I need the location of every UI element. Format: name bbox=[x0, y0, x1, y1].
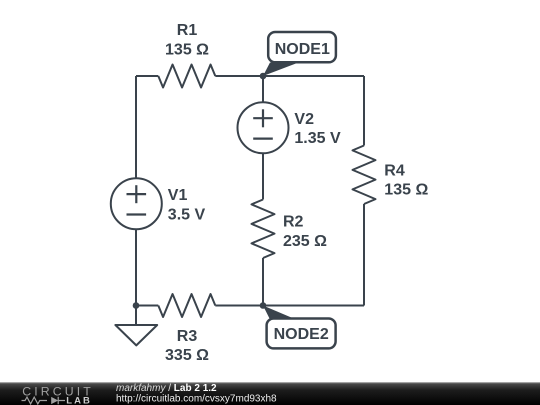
footer logo diode triangle bbox=[51, 397, 58, 404]
node NODE1 label pointer bbox=[263, 63, 299, 77]
svg-text:R2: R2 bbox=[283, 214, 304, 231]
wire top right segment bbox=[263, 75, 364, 77]
wire bottom middle segment bbox=[215, 305, 263, 307]
footer CircuitLab logo wordmark bbox=[22, 385, 94, 405]
wire bottom-left segment bbox=[136, 305, 158, 307]
label R3 value bbox=[165, 328, 209, 364]
svg-text:V2: V2 bbox=[294, 111, 314, 128]
svg-text:135 Ω: 135 Ω bbox=[384, 182, 428, 199]
resistor R3 bbox=[158, 294, 215, 317]
footer logo resistor-diode glyph bbox=[22, 397, 66, 404]
svg-text:http://circuitlab.com/cvsxy7md: http://circuitlab.com/cvsxy7md93xh8 bbox=[116, 393, 277, 404]
wire top middle segment bbox=[215, 75, 263, 77]
node NODE1 junction dot bbox=[260, 73, 267, 80]
svg-text:3.5 V: 3.5 V bbox=[168, 206, 206, 223]
resistor R4 bbox=[353, 146, 376, 205]
label V2 value bbox=[294, 111, 341, 147]
wire left branch lower lead bbox=[135, 229, 137, 305]
svg-text:R3: R3 bbox=[177, 328, 198, 345]
node NODE2 junction dot bbox=[260, 302, 267, 309]
wire middle branch mid lead bbox=[262, 153, 264, 199]
svg-text:R1: R1 bbox=[177, 22, 198, 39]
node junction dot bottom-left bbox=[133, 302, 140, 309]
resistor R2 bbox=[252, 200, 275, 259]
svg-text:1.35 V: 1.35 V bbox=[294, 130, 341, 147]
node NODE2 label pointer bbox=[263, 306, 296, 320]
voltage source V1 bbox=[111, 178, 162, 229]
svg-text:335 Ω: 335 Ω bbox=[165, 347, 209, 364]
svg-text:135 Ω: 135 Ω bbox=[165, 41, 209, 58]
svg-text:NODE1: NODE1 bbox=[275, 41, 330, 58]
wire left branch upper lead bbox=[135, 76, 137, 178]
wire middle branch bottom lead bbox=[262, 258, 264, 306]
label R2 value bbox=[283, 214, 327, 250]
svg-text:V1: V1 bbox=[168, 187, 188, 204]
wire middle branch top lead bbox=[262, 76, 264, 102]
label R1 value bbox=[165, 22, 209, 59]
resistor R1 bbox=[158, 65, 215, 88]
svg-text:LAB: LAB bbox=[66, 395, 92, 405]
voltage source V2 bbox=[238, 102, 289, 153]
ground stem wire bbox=[135, 306, 137, 326]
wire right branch lower lead bbox=[363, 204, 365, 306]
footer bar bbox=[0, 382, 540, 405]
wire right branch upper lead bbox=[363, 76, 365, 146]
svg-text:NODE2: NODE2 bbox=[274, 326, 329, 343]
node NODE1 label box bbox=[268, 32, 336, 62]
node NODE2 label box bbox=[267, 319, 336, 349]
label R4 value bbox=[384, 163, 428, 199]
wire bottom right segment bbox=[263, 305, 364, 307]
label V1 value bbox=[168, 187, 206, 223]
svg-text:235 Ω: 235 Ω bbox=[283, 233, 327, 250]
ground bbox=[115, 325, 157, 345]
svg-text:R4: R4 bbox=[384, 163, 405, 180]
wire top-left segment bbox=[136, 75, 158, 77]
